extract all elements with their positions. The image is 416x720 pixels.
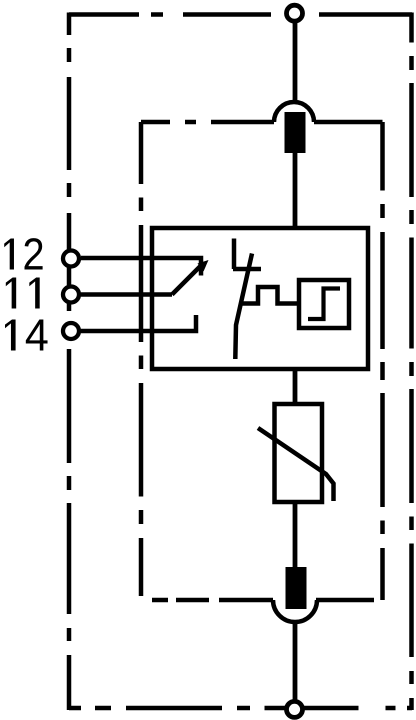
wire inner right edge [380,122,385,600]
plug-in contact arc bottom [273,600,317,622]
wire outer right edge [409,13,414,711]
wire bottom arc to bottom terminal [293,622,298,702]
disconnection device bottom (black block) [286,567,307,609]
changeover contact: wire 11 common [81,292,172,297]
changeover contact: arrowhead [198,260,209,272]
wire inner top edge dashes [141,120,274,125]
defect indicator step glyph [308,289,340,320]
thermal disconnector contact tick [233,267,261,272]
label terminal 11 [6,278,40,309]
wire top block to monitoring box [293,153,298,228]
thermal disconnector blade [235,254,252,360]
signalling step waveform [241,287,300,304]
thermal disconnector stub [232,239,237,270]
terminal 12 circle [63,251,79,267]
wire from top terminal to top arc [293,22,298,103]
terminal bottom [287,701,303,717]
changeover contact: wire 12 with fixed contact [81,258,201,276]
wire monitoring box to varistor [293,369,298,404]
monitoring unit box U1 [152,228,368,369]
wire inner top edge right solid [314,120,383,125]
wire inner bottom edge dashes [152,598,273,603]
wire inner left edge [139,122,144,596]
changeover contact: wire 14 with fixed contact [81,315,196,331]
enclosure outer boundary (dash-dot) [69,13,412,711]
terminal top [287,5,303,21]
terminal 11 circle [63,287,79,303]
plug-in contact arc top [274,102,314,122]
changeover contact: moving arm from 11 [172,266,201,295]
disconnection device top (black block) [285,112,306,153]
wire inner bottom edge right solid [316,598,374,603]
label terminal 12 [4,238,42,269]
defect indicator box [299,280,349,328]
varistor RV1 body [275,404,323,502]
protective module inner boundary (dash-dot) [141,102,383,622]
wire outer left edge [67,13,72,711]
wire outer top edge [69,12,412,17]
wire varistor to bottom block [293,502,298,567]
label terminal 14 [5,320,48,351]
wire outer bottom edge [69,706,412,711]
varistor diagonal stroke [258,428,334,501]
terminal 14 circle [63,323,79,339]
